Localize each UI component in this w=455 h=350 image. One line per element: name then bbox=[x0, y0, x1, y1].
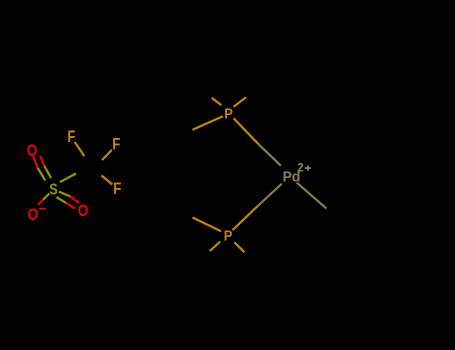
bond P1-CH2 stub (phosphorus half of dmpe backbone) bbox=[193, 116, 223, 130]
svg-text:O: O bbox=[28, 206, 39, 225]
atom P2 (lower phosphorus) bbox=[224, 227, 233, 244]
charge minus sign on O2 bbox=[39, 208, 46, 210]
bond S-O2 single bond red half bbox=[38, 200, 43, 205]
bond S-C stub (sulfur colored half toward CF3 carbon) bbox=[60, 174, 76, 183]
bond P1-Pd palladium half bbox=[259, 144, 281, 165]
svg-text:F: F bbox=[113, 180, 121, 199]
bond S=O1 double bond line 1 red half bbox=[33, 156, 37, 167]
bond P2 methyl stub down-right bbox=[234, 242, 244, 252]
bond Pd-CH3 palladium half (methyl on palladium) bbox=[297, 183, 327, 209]
svg-text:P: P bbox=[224, 105, 233, 122]
bond P1-Pd phosphorus half bbox=[234, 118, 259, 144]
charge 2+ superscript on Pd bbox=[297, 162, 303, 175]
bond C-F3 stub (fluorine half) bbox=[102, 176, 113, 185]
charge plus sign on Pd bbox=[305, 165, 311, 170]
bond S=O1 double bond line 2 red half bbox=[40, 156, 44, 166]
bond P2-Pd palladium half bbox=[258, 184, 282, 206]
bond C-F2 stub (fluorine half) bbox=[102, 150, 112, 160]
bond S=O1 double bond line 2 sulfur half bbox=[44, 166, 51, 178]
svg-text:P: P bbox=[224, 227, 233, 244]
bond S=O3 double bond lower line red half bbox=[66, 203, 74, 209]
bond P2-CH2 stub (phosphorus half of dmpe backbone) bbox=[193, 218, 222, 232]
svg-text:S: S bbox=[49, 181, 57, 199]
atom F3 (lower-right fluorine) bbox=[113, 180, 121, 199]
bond P1 methyl stub up-left bbox=[212, 98, 222, 106]
atom O1 (triflate top-left oxygen) bbox=[27, 142, 38, 161]
svg-text:F: F bbox=[67, 128, 75, 147]
atom O3 (triflate bottom-right oxygen) bbox=[78, 202, 89, 221]
svg-text:O: O bbox=[78, 202, 89, 221]
svg-text:O: O bbox=[27, 142, 38, 161]
svg-text:F: F bbox=[112, 135, 120, 154]
atom F1 (top fluorine) bbox=[67, 128, 75, 147]
bond P2-Pd phosphorus half bbox=[233, 206, 258, 230]
atom P1 (upper phosphorus) bbox=[224, 105, 233, 122]
bond S=O1 double bond line 1 sulfur half bbox=[37, 168, 45, 181]
bond P1 methyl stub up-right bbox=[234, 97, 246, 107]
bond P2 methyl stub down-left bbox=[210, 242, 220, 251]
atom Pd (palladium center) bbox=[283, 169, 301, 186]
atom S (triflate sulfur) bbox=[49, 181, 57, 199]
bond S=O3 double bond upper line red half bbox=[70, 197, 79, 204]
bond S=O3 double bond lower line sulfur half bbox=[57, 197, 67, 203]
bond C-F1 stub (fluorine half) bbox=[75, 142, 85, 156]
bond S-O2 single bond sulfur half bbox=[43, 193, 49, 199]
atom F2 (upper-right fluorine) bbox=[112, 135, 120, 154]
svg-text:2: 2 bbox=[297, 162, 303, 175]
atom O2 minus (triflate anionic oxygen) bbox=[28, 206, 39, 225]
bond S=O3 double bond upper line sulfur half bbox=[59, 192, 71, 197]
